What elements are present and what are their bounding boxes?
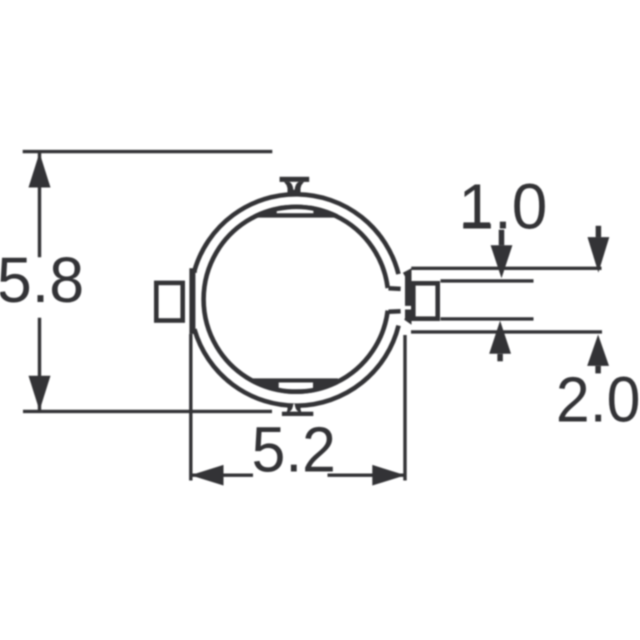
svg-text:1.0: 1.0	[458, 170, 547, 242]
svg-text:5.8: 5.8	[0, 244, 84, 316]
svg-text:2.0: 2.0	[556, 364, 640, 436]
svg-text:5.2: 5.2	[252, 413, 336, 485]
